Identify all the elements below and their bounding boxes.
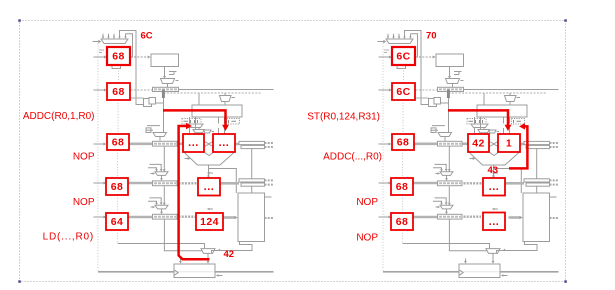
svg-text:ST(R0,124,R31): ST(R0,124,R31) <box>307 111 380 122</box>
node: red arrowhead right into op-A mux <box>186 123 192 129</box>
svg-text:43: 43 <box>488 165 499 176</box>
register PC-RF value 68 <box>107 83 130 100</box>
register WB value 124 <box>196 213 223 230</box>
node: red arrowhead down into op-B right <box>505 125 512 131</box>
svg-text:NOP: NOP <box>356 197 378 208</box>
svg-text:68: 68 <box>112 137 124 149</box>
svg-text:...: ... <box>188 137 199 149</box>
register PC-MEM value 68 <box>391 178 413 195</box>
datapath left copy <box>93 31 274 278</box>
svg-text:NOP: NOP <box>73 197 95 208</box>
wire: red writeback bypass path <box>179 126 210 259</box>
svg-text:64: 64 <box>111 216 123 228</box>
selection border frame <box>20 21 566 282</box>
svg-text:ADDC(...,R0): ADDC(...,R0) <box>323 151 382 162</box>
register PC-WB value 68 <box>391 213 413 230</box>
svg-text:68: 68 <box>111 181 123 193</box>
svg-text:NOP: NOP <box>356 232 378 243</box>
node: red arrowhead left into op-B mux right <box>519 123 525 129</box>
register PC-IF value 6C <box>392 47 415 65</box>
register op-A value 42 <box>468 134 489 152</box>
register PC-ALU value 68 <box>392 134 414 150</box>
svg-text:68: 68 <box>396 216 408 228</box>
register op-A value ... <box>183 134 204 152</box>
svg-text:68: 68 <box>112 51 124 63</box>
svg-text:...: ... <box>204 181 215 193</box>
svg-text:NOP: NOP <box>73 152 95 163</box>
svg-text:42: 42 <box>472 138 484 150</box>
svg-text:124: 124 <box>200 216 219 228</box>
wire: red ALU-loop bypass path right <box>509 126 527 168</box>
svg-text:68: 68 <box>112 86 124 98</box>
register PC-ALU value 68 <box>107 134 129 150</box>
register MEM value ... <box>198 178 220 196</box>
register PC-RF value 6C <box>392 83 415 100</box>
wire: red bypass arrow control-to-opB <box>163 110 226 125</box>
register PC-IF value 68 <box>107 47 130 65</box>
node: red arrowhead down into op-B <box>222 125 229 131</box>
svg-text:42: 42 <box>224 249 235 260</box>
register op-B value 1 <box>498 134 520 152</box>
svg-text:...: ... <box>489 181 500 193</box>
svg-text:68: 68 <box>397 137 409 149</box>
svg-text:6C: 6C <box>396 51 410 63</box>
register MEM value ... <box>483 178 505 196</box>
svg-text:6C: 6C <box>141 31 153 42</box>
register PC-MEM value 68 <box>106 178 128 195</box>
svg-text:1: 1 <box>506 138 512 150</box>
svg-text:68: 68 <box>396 181 408 193</box>
svg-text:6C: 6C <box>396 86 410 98</box>
register op-B value ... <box>213 134 235 152</box>
svg-text:...: ... <box>489 216 500 228</box>
datapath right copy <box>378 31 559 278</box>
svg-text:LD(...,R0): LD(...,R0) <box>43 231 94 242</box>
register WB value ... <box>483 213 505 231</box>
svg-text:...: ... <box>219 137 230 149</box>
svg-text:ADDC(R0,1,R0): ADDC(R0,1,R0) <box>23 111 95 122</box>
svg-text:70: 70 <box>426 31 437 42</box>
register PC-WB value 64 <box>106 213 128 230</box>
wire: red bypass arrow control-to-opB right <box>448 110 508 125</box>
